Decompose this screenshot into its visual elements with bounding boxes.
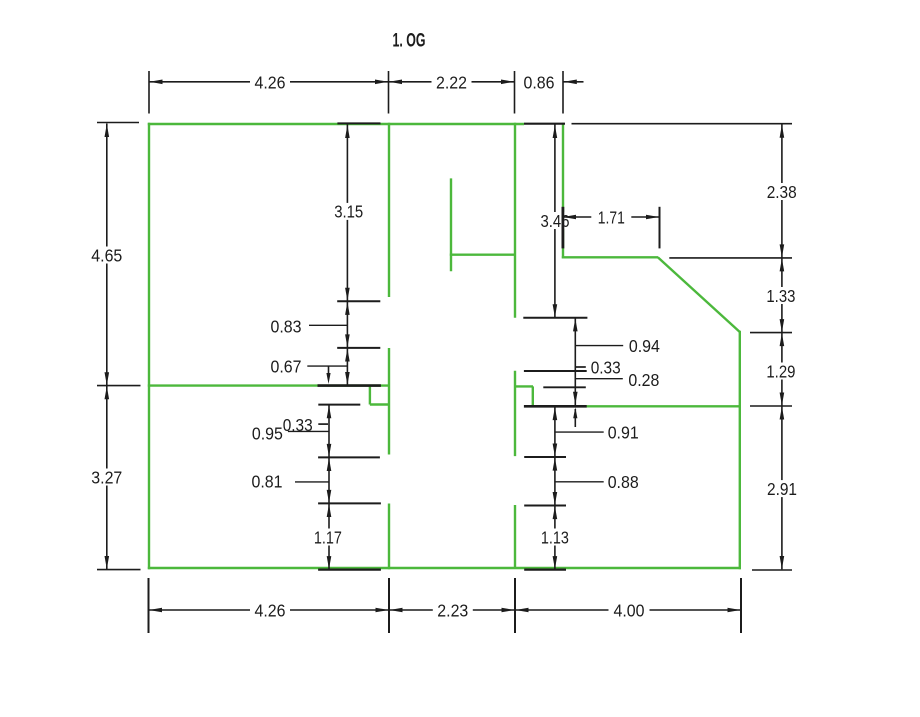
label 0.33 right [591,357,621,377]
tick overlay on bottom wall right [524,568,566,570]
svg-text:0.88: 0.88 [608,472,639,492]
dimension 1.33 line [780,258,785,333]
dimension 4.26 top line [149,80,389,85]
dimension 0.83 line [345,301,350,348]
tick at y=301.3 [337,300,380,302]
label 0.81 [252,472,283,492]
leader 0.81 [295,481,329,483]
wall: upper-right room left wall (x=563) [562,123,564,259]
leader 0.67 [307,365,347,367]
svg-text:0.86: 0.86 [524,73,555,93]
extension line right at y=258 [669,257,792,259]
tick bottom at x=148.5 [148,578,150,633]
label 4.26 bottom [250,601,290,621]
svg-text:1.13: 1.13 [541,527,569,547]
tick at y=371 [524,370,587,372]
label 0.67 [271,356,302,376]
tick on top wall for 3.15 [337,122,380,124]
svg-text:1.29: 1.29 [766,361,795,381]
extension line 1.71 right (x=659.5) [659,207,661,249]
label 2.23 [433,601,473,621]
leader 0.94 [575,345,623,347]
wall: middle-right interior (y=406) [533,405,741,407]
wall: top exterior [148,123,524,125]
label 1.71 [591,207,631,227]
svg-text:4.26: 4.26 [255,601,286,621]
extension line right at y=406 [750,405,792,407]
wall: corridor-right upper segment (x=515) [514,123,516,318]
label 4.65 [86,245,127,265]
dimension 2.38 line [780,124,785,258]
tick stub 0.33 left [318,423,328,425]
dimension 1.13 line [553,506,558,570]
label 1.29 [760,361,801,381]
tick at y=457 [524,456,566,458]
dimension 0.86 outside arrow [563,80,584,85]
dimension 2.22 line [389,80,515,85]
label 1.13 [535,527,575,547]
svg-text:0.95: 0.95 [252,423,283,443]
svg-text:0.67: 0.67 [271,356,302,376]
svg-text:4.65: 4.65 [91,245,122,265]
svg-text:3.15: 3.15 [334,202,363,222]
svg-text:2.23: 2.23 [437,601,468,621]
leader 0.83 [309,324,348,326]
svg-text:0.28: 0.28 [628,370,659,390]
tick at y=347.9 [337,347,380,349]
wall: left exterior [148,123,150,569]
wall: middle-left interior (y=386) [148,384,390,386]
dimension 1.29 line [780,333,785,406]
svg-text:3.27: 3.27 [91,467,122,487]
extension line left middle [97,385,141,387]
extension line right top long [572,123,793,125]
wall: corridor-right lower segment [514,505,516,568]
wall: right door jamb notch vertical [532,386,534,406]
label 0.91 [608,422,639,442]
label 2.91 [762,479,803,499]
tick at y=404.6 [318,404,360,406]
extension line left bottom [97,569,141,571]
dimension 4.00 line [515,608,741,613]
wall: right exterior upper (x=740) [739,331,741,407]
wall: right exterior lower [739,406,741,569]
dimension 1.17 line [327,503,332,569]
label 1.33 [760,286,801,306]
svg-text:4.26: 4.26 [255,73,286,93]
label 0.95 [252,423,283,443]
tick overlay on middle-left wall [318,384,381,387]
svg-text:0.81: 0.81 [252,472,283,492]
label 0.88 [608,472,639,492]
chain line x=575.3 [573,318,578,406]
wall: right door jamb notch horizontal [515,385,533,387]
svg-text:1.17: 1.17 [314,527,342,547]
wall: corridor-left middle segment [388,348,390,455]
dimension 0.88 line [553,457,558,506]
extension line left top [97,122,139,124]
tick overlay on bottom wall left [318,568,381,570]
svg-text:0.33: 0.33 [591,357,621,377]
extension line right at y=333 [750,332,792,334]
wall: left door jamb notch vertical [369,386,371,405]
tick bottom at x=741 [740,578,742,633]
tick at y=457.4 [318,456,380,458]
svg-text:4.00: 4.00 [614,601,645,621]
dimension 0.95 line [327,405,332,458]
extension line top-left (x=149) [148,71,150,114]
wall: corridor closet horizontal (y=255) [450,253,515,255]
dimension 3.15 line [345,124,350,301]
svg-text:0.83: 0.83 [271,316,302,336]
leader arrow to wall at x=328.5 [326,366,330,384]
svg-text:0.94: 0.94 [629,336,660,356]
label 0.33 left [283,415,313,435]
extension line top at x=563 [562,71,564,114]
dimension 3.46 line [553,124,558,318]
wall: corridor closet vertical (x=451) [450,178,452,271]
extension line top at x=388.5 [388,71,390,114]
tick stub 0.33 right [575,366,586,368]
leader 0.91 [555,431,604,433]
leader 0.28 [575,378,623,380]
dimension 4.26 bottom line [149,608,390,613]
label 0.86 [519,73,560,93]
label 0.28 [628,370,659,390]
svg-text:3.46: 3.46 [541,211,570,231]
dimension 4.65 line [105,124,110,386]
tick at y=505.5 [524,505,566,507]
svg-text:2.91: 2.91 [767,479,797,499]
label 0.94 [629,336,660,356]
label 3.46 [535,211,576,231]
wall: bottom exterior [148,567,741,569]
dimension 0.91 line [553,407,558,458]
wall: left door jamb notch horizontal [370,403,390,405]
svg-text:1.71: 1.71 [598,207,625,227]
tick at y=387.3 [543,386,586,388]
wall: corridor-left upper segment (x=389) [388,123,390,297]
label 4.00 [609,601,650,621]
svg-text:1.33: 1.33 [766,286,795,306]
svg-text:2.38: 2.38 [767,182,797,202]
wall: corridor-left lower segment [388,504,390,570]
tick at y=503.4 [318,502,381,504]
dimension 3.27 line [105,386,110,570]
wall: diagonal corner [658,257,740,332]
dimension 1.71 line [563,215,660,220]
svg-text:0.91: 0.91 [608,422,639,442]
extension line right bottom [752,569,792,571]
dimension 0.81 line [327,457,332,503]
title 1. OG [393,30,426,52]
wall: upper-right room bottom (y=257) [562,256,658,258]
tick at y=317.8 [523,317,587,319]
leader 0.88 [555,481,604,483]
label 1.17 [308,527,348,547]
svg-text:1. OG: 1. OG [393,30,426,52]
tick overlay on middle-right wall [524,405,587,408]
tick bottom at x=389 [388,578,390,633]
leader 0.95 [288,430,329,432]
extension line 1.71 left (on wall x=563) [562,207,565,249]
dimension 2.91 line [780,406,785,569]
wall: corridor-right middle segment [514,371,516,456]
label 3.15 [328,202,369,222]
label 3.27 [86,467,127,487]
dimension 0.67 line [345,348,350,386]
tick bottom at x=515 [514,578,516,633]
label 2.22 [432,73,472,93]
label 2.38 [761,182,802,202]
extension line top at x=514.5 [514,71,516,114]
svg-text:2.22: 2.22 [436,73,467,93]
label 4.26 top [250,73,290,93]
outside arrow below wall at x=575.3 [573,407,577,427]
black segment on top wall (door span) [524,123,565,125]
label 0.83 [271,316,302,336]
dimension 2.23 line [389,608,515,613]
